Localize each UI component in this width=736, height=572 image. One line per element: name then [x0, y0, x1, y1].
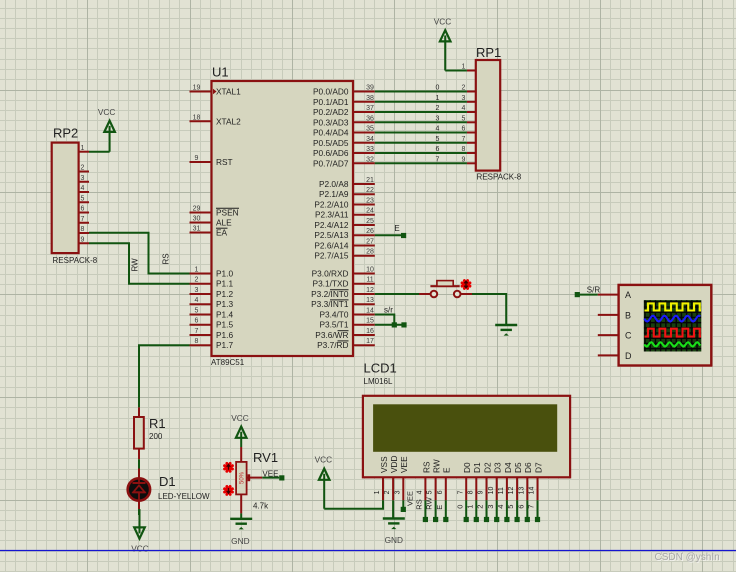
U1 pin 34 P0.5/AD5 — [313, 136, 375, 148]
svg-text:17: 17 — [366, 338, 374, 345]
svg-text:P1.6: P1.6 — [216, 330, 233, 340]
wire+terminal LCD D7 — [527, 500, 541, 522]
U1 pin 7 P1.6 — [190, 328, 234, 340]
svg-text:3: 3 — [195, 287, 199, 294]
U1 pin 35 P0.4/AD4 — [313, 126, 375, 138]
svg-text:7: 7 — [527, 505, 536, 509]
svg-text:39: 39 — [366, 85, 374, 92]
U1 pin 37 P0.2/AD2 — [313, 105, 375, 117]
svg-text:VCC: VCC — [231, 413, 249, 423]
svg-text:30: 30 — [193, 216, 201, 223]
svg-text:P2.3/A11: P2.3/A11 — [315, 210, 349, 220]
svg-text:D7: D7 — [533, 462, 543, 473]
svg-text:D6: D6 — [523, 462, 533, 473]
resistor pack RP2 body — [52, 143, 79, 254]
LCD pin 13 D6 — [518, 462, 533, 500]
svg-text:200: 200 — [149, 432, 163, 441]
U1 pin 32 P0.7/AD7 — [313, 156, 375, 168]
blue separator line — [0, 550, 736, 552]
svg-text:4.7k: 4.7k — [253, 501, 269, 510]
svg-text:21: 21 — [366, 177, 374, 184]
potentiometer RV1 — [236, 447, 247, 513]
svg-text:RW: RW — [131, 258, 140, 272]
LCD pin 5 RW — [427, 459, 442, 500]
wire P3.5/T1 to terminal — [375, 324, 402, 326]
svg-text:RS: RS — [415, 499, 424, 509]
svg-text:22: 22 — [366, 187, 374, 194]
LCD pin 11 D4 — [498, 462, 513, 500]
svg-text:5: 5 — [81, 195, 85, 202]
ground (RV1) — [230, 513, 252, 546]
svg-text:RESPACK-8: RESPACK-8 — [477, 172, 522, 181]
wire P1.7 to R1 — [139, 345, 190, 407]
svg-text:13: 13 — [518, 487, 525, 495]
svg-text:R1: R1 — [149, 416, 166, 431]
svg-text:VEE: VEE — [262, 470, 278, 479]
power VCC terminal (LCD) — [315, 455, 333, 509]
svg-text:4: 4 — [195, 297, 199, 304]
svg-text:16: 16 — [366, 328, 374, 335]
svg-text:34: 34 — [366, 136, 374, 143]
oscilloscope pin D — [598, 351, 632, 361]
svg-text:5: 5 — [436, 136, 440, 143]
svg-text:11: 11 — [498, 487, 505, 494]
svg-text:4: 4 — [436, 126, 440, 133]
svg-text:P3.5/T1: P3.5/T1 — [319, 320, 348, 330]
svg-text:6: 6 — [516, 505, 525, 509]
svg-text:3: 3 — [436, 115, 440, 122]
svg-text:5: 5 — [506, 505, 515, 509]
svg-text:E: E — [394, 224, 399, 233]
svg-text:7: 7 — [81, 216, 85, 223]
LCD pin 8 D1 — [467, 462, 482, 500]
svg-text:P2.4/A12: P2.4/A12 — [314, 220, 349, 230]
RP1 pin 1 — [462, 64, 476, 71]
ground (button) — [495, 325, 517, 336]
RP2 pin 6 — [79, 206, 89, 213]
svg-text:2: 2 — [384, 490, 391, 494]
oscilloscope pin A — [598, 290, 631, 300]
wire+terminal LCD D3 — [486, 500, 500, 522]
svg-text:P1.2: P1.2 — [216, 289, 233, 299]
RP1 pin 3 — [462, 95, 476, 102]
wire P3.2/INT0 to button — [375, 293, 419, 295]
svg-text:XTAL1: XTAL1 — [216, 87, 241, 97]
LCD pin 6 E — [437, 467, 452, 500]
svg-text:12: 12 — [366, 287, 374, 294]
svg-text:14: 14 — [366, 308, 374, 315]
RP1 pin 8 — [462, 146, 476, 153]
svg-text:P3.0/RXD: P3.0/RXD — [312, 269, 349, 279]
svg-text:6: 6 — [437, 490, 444, 494]
U1 pin 33 P0.6/AD6 — [313, 146, 375, 158]
svg-text:P0.5/AD5: P0.5/AD5 — [313, 138, 349, 148]
svg-text:RS: RS — [421, 461, 431, 473]
wire LCD VSS to VCC — [324, 500, 383, 508]
RP2 pin 8 — [79, 226, 89, 233]
RP1 pin 4 — [462, 105, 476, 112]
U1 pin 18 XTAL2 — [190, 114, 242, 126]
terminal on P3.4 wire — [392, 322, 397, 327]
U1 pin 36 P0.3/AD3 — [313, 115, 375, 127]
svg-text:2: 2 — [476, 505, 485, 509]
svg-text:VEE: VEE — [399, 456, 409, 473]
svg-text:P3.2/INT0: P3.2/INT0 — [311, 289, 349, 299]
svg-text:36: 36 — [366, 115, 374, 122]
svg-text:37: 37 — [366, 105, 374, 112]
LCD pin 9 D2 — [478, 462, 493, 500]
svg-text:ALE: ALE — [216, 218, 232, 228]
svg-text:P0.4/AD4: P0.4/AD4 — [313, 128, 349, 138]
LCD pin 2 VDD — [384, 455, 399, 500]
U1 pin 14 P3.4/T0 — [319, 308, 374, 320]
U1 pin 30 ALE — [190, 216, 233, 228]
U1 pin 6 P1.5 — [190, 318, 234, 330]
svg-text:XTAL2: XTAL2 — [216, 116, 241, 126]
svg-text:LM016L: LM016L — [364, 377, 393, 386]
svg-text:10: 10 — [488, 487, 495, 495]
svg-text:P0.3/AD3: P0.3/AD3 — [313, 117, 349, 127]
U1 pin 19 XTAL1 — [190, 85, 242, 97]
svg-text:A: A — [625, 290, 631, 300]
wire+terminal LCD D6 — [516, 500, 530, 522]
svg-text:D1: D1 — [472, 462, 482, 473]
svg-text:VCC: VCC — [98, 107, 116, 117]
svg-text:P1.0: P1.0 — [216, 269, 233, 279]
microcontroller U1 body — [212, 81, 354, 356]
RP2 pin 1 — [79, 145, 89, 152]
wire D1 to VCC (down) — [138, 509, 140, 515]
svg-text:7: 7 — [457, 490, 464, 494]
svg-text:15: 15 — [366, 318, 374, 325]
U1 pin 24 P2.3/A11 — [315, 208, 375, 220]
svg-text:VSS: VSS — [379, 456, 389, 473]
svg-text:D1: D1 — [159, 474, 176, 489]
svg-text:P0.7/AD7: P0.7/AD7 — [313, 158, 349, 168]
svg-text:5: 5 — [195, 308, 199, 315]
svg-text:11: 11 — [366, 277, 373, 284]
waveform channel A (yellow) — [645, 303, 702, 310]
svg-text:P1.3: P1.3 — [216, 299, 233, 309]
RP1 pin 9 — [462, 157, 476, 164]
svg-text:D3: D3 — [493, 462, 503, 473]
wire+terminal LCD D4 — [496, 500, 510, 522]
svg-text:D5: D5 — [513, 462, 523, 473]
svg-text:28: 28 — [366, 249, 374, 256]
svg-text:50%: 50% — [240, 471, 246, 484]
svg-text:6: 6 — [195, 318, 199, 325]
U1 pin 15 P3.5/T1 — [319, 318, 374, 330]
svg-text:7: 7 — [436, 156, 440, 163]
svg-text:P0.2/AD2: P0.2/AD2 — [313, 107, 349, 117]
wire P0.5 to RP1 pin 7, net 5 — [375, 136, 467, 143]
svg-text:25: 25 — [366, 218, 374, 225]
wire RP2 pin 1 to VCC — [89, 151, 110, 153]
svg-text:LCD1: LCD1 — [364, 360, 397, 375]
oscilloscope body — [619, 285, 712, 366]
svg-text:P3.1/TXD: P3.1/TXD — [313, 279, 349, 289]
svg-text:VCC: VCC — [315, 455, 333, 465]
svg-text:5: 5 — [427, 490, 434, 494]
wire RP2 pin 9 to P1.1 (RW) — [89, 243, 190, 283]
svg-text:P2.5/A13: P2.5/A13 — [314, 230, 349, 240]
svg-text:VEE: VEE — [405, 491, 414, 506]
svg-text:2: 2 — [81, 165, 85, 172]
svg-text:RST: RST — [216, 157, 233, 167]
svg-text:P3.7/RD: P3.7/RD — [317, 340, 348, 350]
svg-text:2: 2 — [436, 105, 440, 112]
RV1 wiper arrow — [248, 474, 280, 481]
svg-text:8: 8 — [195, 338, 199, 345]
U1 pin 9 RST — [190, 155, 233, 167]
svg-text:3: 3 — [81, 175, 85, 182]
svg-text:S/R: S/R — [587, 286, 601, 295]
svg-text:12: 12 — [508, 487, 515, 495]
svg-text:E: E — [435, 505, 444, 510]
U1 pin 23 P2.2/A10 — [314, 198, 374, 210]
svg-text:RW: RW — [425, 496, 434, 509]
svg-text:24: 24 — [366, 208, 374, 215]
RP1 pin 2 — [462, 85, 476, 92]
svg-text:29: 29 — [193, 206, 201, 213]
svg-text:P1.1: P1.1 — [216, 279, 233, 289]
wire S/R to scope A — [580, 294, 598, 296]
oscilloscope pin C — [598, 331, 632, 341]
waveform channel B (blue) — [644, 316, 700, 322]
svg-text:U1: U1 — [212, 65, 229, 80]
ground (LCD) — [383, 519, 405, 546]
svg-text:GND: GND — [231, 536, 249, 546]
RP2 pin 3 — [79, 175, 89, 182]
svg-text:D: D — [625, 351, 632, 361]
svg-text:9: 9 — [81, 236, 85, 243]
U1 pin 29 PSEN — [190, 206, 240, 218]
U1 pin 16 P3.6/WR — [315, 328, 375, 340]
svg-text:P2.7/A15: P2.7/A15 — [314, 251, 349, 261]
svg-text:D4: D4 — [503, 462, 513, 473]
U1 pin 1 P1.0 — [190, 267, 234, 279]
svg-text:23: 23 — [366, 198, 374, 205]
svg-text:1: 1 — [81, 145, 85, 152]
svg-text:13: 13 — [366, 297, 374, 304]
RP2 pin 2 — [79, 165, 89, 172]
svg-text:P1.4: P1.4 — [216, 310, 233, 320]
oscilloscope pin B — [598, 310, 631, 320]
RV1 up actuator — [225, 463, 233, 471]
svg-text:P3.3/INT1: P3.3/INT1 — [311, 299, 349, 309]
waveform channel C (red) — [645, 329, 702, 337]
U1 pin 12 P3.2/INT0 — [311, 287, 375, 299]
U1 pin 22 P2.1/A9 — [319, 187, 375, 199]
terminal VEE — [262, 470, 284, 481]
oscilloscope screen — [644, 300, 702, 351]
svg-text:6: 6 — [81, 206, 85, 213]
U1 pin 4 P1.3 — [190, 297, 234, 309]
LCD pin 3 VEE — [394, 456, 409, 500]
svg-text:10: 10 — [366, 267, 374, 274]
svg-text:0: 0 — [436, 85, 440, 92]
wire P0.4 to RP1 pin 6, net 4 — [375, 126, 467, 133]
svg-text:D0: D0 — [462, 462, 472, 473]
power VCC terminal (RP1) — [434, 17, 452, 71]
U1 XTAL1 clock marker — [213, 89, 217, 95]
svg-text:s/r: s/r — [384, 306, 393, 315]
svg-text:8: 8 — [81, 226, 85, 233]
svg-text:P3.4/T0: P3.4/T0 — [319, 310, 348, 320]
wire+terminal LCD RW — [425, 496, 439, 522]
svg-text:P2.6/A14: P2.6/A14 — [314, 241, 349, 251]
wire P3.4/T0 to terminal s/r — [375, 315, 395, 325]
U1 pin 28 P2.7/A15 — [314, 249, 374, 261]
power VCC terminal (below D1, pointing down) — [131, 509, 149, 553]
wire+terminal LCD D5 — [506, 500, 520, 522]
RP2 pin 5 — [79, 195, 89, 202]
wire VCC to RP1 pin 1 — [445, 70, 467, 72]
svg-text:35: 35 — [366, 126, 374, 133]
svg-text:31: 31 — [193, 226, 201, 233]
U1 pin 5 P1.4 — [190, 308, 234, 320]
terminal VEE (LCD) — [401, 491, 415, 512]
svg-text:1: 1 — [195, 267, 199, 274]
svg-text:RS: RS — [162, 253, 171, 264]
wire R1 to D1 — [138, 459, 140, 468]
svg-text:7: 7 — [195, 328, 199, 335]
LCD pin 14 D7 — [529, 462, 544, 500]
wire P0.3 to RP1 pin 5, net 3 — [375, 115, 467, 122]
svg-text:EA: EA — [216, 228, 228, 238]
svg-text:9: 9 — [478, 490, 485, 494]
push button (switch) — [419, 281, 472, 298]
LCD pin 7 D0 — [457, 462, 472, 500]
svg-text:VCC: VCC — [434, 17, 452, 27]
wire+terminal LCD D0 — [455, 500, 469, 522]
svg-text:C: C — [625, 331, 632, 341]
U1 pin 8 P1.7 — [190, 338, 234, 350]
U1 pin 21 P2.0/A8 — [319, 177, 375, 189]
wire RP2 pin 8 to P1.0 (RS) — [89, 233, 190, 274]
svg-text:RP1: RP1 — [476, 45, 501, 60]
svg-text:1: 1 — [374, 490, 381, 494]
LCD pin 12 D5 — [508, 462, 523, 500]
svg-text:RESPACK-8: RESPACK-8 — [53, 256, 98, 265]
wire P0.7 to RP1 pin 9, net 7 — [375, 156, 467, 163]
waveform channel D (green) — [644, 342, 700, 346]
svg-text:9: 9 — [195, 155, 199, 162]
RV1 down actuator — [225, 486, 233, 494]
svg-text:19: 19 — [193, 85, 201, 92]
power VCC terminal (RV1) — [231, 413, 249, 447]
LCD pin 10 D3 — [488, 462, 503, 500]
svg-text:P0.6/AD6: P0.6/AD6 — [313, 148, 349, 158]
svg-text:4: 4 — [417, 490, 424, 494]
wire LCD VDD to ground — [392, 500, 394, 518]
U1 pin 10 P3.0/RXD — [312, 267, 375, 279]
LCD pin 1 VSS — [374, 456, 389, 500]
svg-text:GND: GND — [385, 535, 403, 545]
power VCC terminal (RP2) — [98, 107, 116, 152]
svg-text:P1.5: P1.5 — [216, 320, 233, 330]
svg-text:LED-YELLOW: LED-YELLOW — [158, 492, 210, 501]
LED D1 — [128, 469, 150, 510]
wire+terminal LCD D2 — [476, 500, 490, 522]
svg-text:8: 8 — [467, 490, 474, 494]
svg-text:32: 32 — [366, 156, 374, 163]
svg-text:P0.0/AD0: P0.0/AD0 — [313, 87, 349, 97]
svg-text:RW: RW — [432, 459, 442, 473]
RP1 pin 5 — [462, 116, 476, 123]
U1 pin 25 P2.4/A12 — [314, 218, 374, 230]
svg-text:4: 4 — [496, 505, 505, 509]
svg-text:P3.6/WR: P3.6/WR — [315, 330, 348, 340]
svg-text:1: 1 — [465, 505, 474, 509]
terminal S/R — [575, 286, 601, 298]
LCD pin 4 RS — [417, 461, 432, 500]
U1 pin 38 P0.1/AD1 — [313, 95, 375, 107]
wire P0.1 to RP1 pin 3, net 1 — [375, 95, 467, 102]
RP2 pin 4 — [79, 185, 89, 192]
U1 pin 27 P2.6/A14 — [314, 239, 374, 251]
svg-text:4: 4 — [81, 185, 85, 192]
svg-text:38: 38 — [366, 95, 374, 102]
RP2 pin 9 — [79, 236, 89, 243]
svg-text:VDD: VDD — [389, 455, 399, 473]
wire button to ground — [472, 294, 506, 325]
U1 pin 39 P0.0/AD0 — [313, 85, 375, 97]
svg-text:P0.1/AD1: P0.1/AD1 — [313, 97, 349, 107]
svg-text:RV1: RV1 — [253, 450, 278, 465]
svg-text:P2.2/A10: P2.2/A10 — [314, 200, 349, 210]
terminal on P3.5 wire — [401, 322, 406, 327]
svg-text:D2: D2 — [482, 462, 492, 473]
svg-text:PSEN: PSEN — [216, 208, 239, 218]
wire+terminal LCD E — [435, 500, 449, 522]
svg-text:VCC: VCC — [131, 544, 149, 554]
svg-text:1: 1 — [436, 95, 440, 102]
U1 pin 13 P3.3/INT1 — [311, 297, 375, 309]
U1 pin 17 P3.7/RD — [317, 338, 375, 350]
RP1 pin 6 — [462, 126, 476, 133]
svg-text:18: 18 — [193, 114, 201, 121]
svg-text:RP2: RP2 — [53, 126, 78, 141]
svg-text:P2.0/A8: P2.0/A8 — [319, 179, 349, 189]
U1 pin 31 EA — [190, 226, 228, 238]
wire P2.5/A13 to terminal E — [375, 234, 401, 236]
U1 pin 11 P3.1/TXD — [313, 277, 375, 289]
RP2 pin 7 — [79, 216, 89, 223]
wire P0.2 to RP1 pin 4, net 2 — [375, 105, 467, 112]
wire P0.0 to RP1 pin 2, net 0 — [375, 85, 467, 92]
svg-text:AT89C51: AT89C51 — [211, 358, 245, 367]
svg-text:0: 0 — [455, 505, 464, 509]
wire+terminal LCD D1 — [465, 500, 479, 522]
button actuator marker — [462, 281, 470, 289]
svg-text:E: E — [442, 467, 452, 473]
U1 pin 3 P1.2 — [190, 287, 234, 299]
RP1 pin 7 — [462, 136, 476, 143]
svg-text:3: 3 — [394, 490, 401, 494]
svg-text:27: 27 — [366, 239, 374, 246]
svg-text:2: 2 — [195, 277, 199, 284]
svg-text:B: B — [625, 310, 631, 320]
resistor R1 — [134, 407, 144, 459]
svg-text:6: 6 — [436, 146, 440, 153]
svg-text:CSDN @yshIn: CSDN @yshIn — [655, 552, 720, 563]
U1 pin 2 P1.1 — [190, 277, 234, 289]
wire P0.6 to RP1 pin 8, net 6 — [375, 146, 467, 153]
svg-text:14: 14 — [529, 487, 536, 495]
svg-text:P2.1/A9: P2.1/A9 — [319, 189, 349, 199]
wire+terminal LCD RS — [415, 499, 429, 522]
